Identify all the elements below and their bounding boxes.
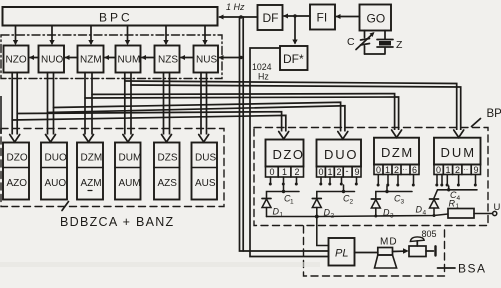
svg-text:R: R [449,199,456,209]
wire from summing bus down to PL [317,217,329,246]
contact wire C2 [317,190,355,206]
decoder/driver DUM/AUM [115,143,141,200]
svg-text:MD: MD [380,237,398,248]
svg-text:1: 1 [446,165,451,175]
scan artifact left edge [0,96,2,134]
carry wire NZM to NUO [65,55,78,60]
wire DF 1Hz output to BPC [219,15,258,20]
hollow arrow into DUS/AUS [199,135,209,143]
hollow arrow into DZS/AZS [162,135,172,143]
leader slash for BDBZCA label [62,202,69,211]
svg-text:DF*: DF* [283,52,304,66]
segment contacts under DUO [319,177,358,192]
wire pair NZM down to DZM/AZM [85,73,92,135]
svg-text:D: D [273,207,280,217]
wire 1Hz vertical feed to PL [240,17,329,251]
svg-text:DUM: DUM [119,153,142,164]
wire BPC to NZM [88,26,93,46]
svg-text:1: 1 [385,165,390,175]
hollow arrow into display DUM [454,130,464,138]
counter NZS [155,46,180,73]
dash-dot border of counter group BOZC [1,35,222,79]
svg-text:805: 805 [422,229,437,239]
wire BPC to NZO [13,26,18,46]
svg-text:C: C [347,36,355,48]
svg-text:0: 0 [319,167,324,177]
svg-text:4: 4 [457,195,461,202]
wire FI to DF [283,14,310,19]
counter NZO [4,46,29,73]
oscillator block FI [310,5,335,30]
svg-text:AUS: AUS [195,178,216,189]
svg-text:··: ·· [464,167,469,174]
svg-text:··: ·· [403,167,408,174]
svg-text:DZO: DZO [273,147,305,162]
wire pair NUO down to DUO/AUO [48,73,54,135]
wire 1Hz second vertical [242,17,244,251]
svg-text:DUO: DUO [324,147,358,162]
dashed border BP display unit [254,128,488,226]
segment contacts under DZO [269,177,298,192]
svg-text:BSA: BSA [458,262,487,276]
hollow arrow into DUO/AUO [46,135,56,143]
carry wire NUM to NZM [104,55,116,60]
wire BPC to NUM [125,26,130,46]
svg-text:DZO: DZO [7,153,28,164]
scanner smudge band [0,262,320,267]
decoder/driver DZS/AZS [154,143,180,200]
svg-text:0: 0 [436,165,441,175]
block BPC [3,7,218,26]
diode D3 [371,199,394,220]
dashed border BSA sound unit [304,226,445,276]
svg-text:NZO: NZO [6,55,27,66]
svg-text:DZS: DZS [158,153,178,164]
svg-text:9: 9 [355,167,360,177]
svg-text:DUM: DUM [441,145,477,160]
counter NUM [116,46,141,73]
carry wire NZS to NUM [141,55,155,60]
wire pair NZS down to DZS/AZS [164,73,170,135]
wire pair NUS down to DUS/AUS [201,73,207,135]
svg-text:DZM: DZM [381,145,414,160]
svg-text:3: 3 [401,199,405,206]
svg-text:AUO: AUO [45,178,67,189]
diode D2 [312,199,334,220]
svg-text:NUM: NUM [118,55,141,66]
hollow arrow into display DUO [338,132,348,140]
svg-text:1: 1 [328,167,333,177]
svg-text:2: 2 [455,165,460,175]
diode D4 [416,199,439,217]
programmer block PL [329,238,355,266]
bus pair NZO to display DZO [12,112,286,132]
svg-text:DF: DF [263,11,279,25]
svg-text:1024: 1024 [252,62,272,72]
wire GO to FI [336,14,360,19]
counter NUS [194,46,219,73]
decoder/driver DUO/AUO [41,143,67,200]
svg-text:NZS: NZS [158,55,178,66]
bell 805 [393,229,437,257]
svg-text:BDBZCA + BANZ: BDBZCA + BANZ [60,215,175,229]
output terminal U [474,202,501,216]
svg-text:NUO: NUO [41,55,63,66]
decoder/driver DZO/AZO [3,143,29,200]
dashed border BDBZCA+BANZ group [1,129,224,207]
svg-text:NZM: NZM [80,55,102,66]
carry wire NUS to NZS [180,55,194,60]
carry wire NUO to NZO [29,55,39,60]
display DZM [374,138,419,175]
loudspeaker MD [355,237,398,269]
wire pair NUM down to DUM/AUM [125,73,131,135]
hollow arrow into DZO/AZO [10,135,20,143]
wire BPC to NUS [202,26,207,46]
display DUM [434,138,481,175]
oscillator block DF (divider) [258,5,283,30]
display DZO [266,140,305,178]
wire pair NZO down to DZO/AZO [12,73,17,135]
svg-text:Hz: Hz [258,72,269,82]
summing wire to R1 [267,214,449,218]
svg-text:1: 1 [282,167,287,177]
svg-text:AZM: AZM [81,178,102,189]
contact wire C1 [267,190,300,206]
diode D1 [262,199,284,219]
svg-text:D: D [416,205,423,215]
counter NUO [39,46,65,73]
svg-text:PL: PL [335,248,348,260]
decoder/driver DUS/AUS [192,143,218,200]
svg-text:NUS: NUS [196,55,217,66]
svg-text:DUO: DUO [45,153,67,164]
label BSA with leader [438,262,487,276]
svg-text:GO: GO [367,12,386,26]
hollow arrow into DZM/AZM [84,135,94,143]
svg-text:1: 1 [456,203,460,210]
bus pair NUO to display DUO [48,102,345,131]
svg-text:9: 9 [474,165,479,175]
svg-text:AZO: AZO [7,178,28,189]
svg-text:2: 2 [350,199,354,206]
segment contacts under DUM [435,175,477,190]
svg-text:0: 0 [270,167,275,177]
svg-text:2: 2 [394,165,399,175]
svg-text:2: 2 [295,167,300,177]
counter NZM [78,46,104,73]
hollow arrow into display DZM [392,130,402,138]
svg-text:AZS: AZS [158,178,178,189]
svg-text:DZM: DZM [81,153,103,164]
bus pair NZM to display DZM [85,94,399,131]
svg-text:2: 2 [337,167,342,177]
svg-text:1: 1 [280,212,284,219]
resistor R1 [448,199,474,219]
divider block DF* [280,46,308,70]
svg-text:BP: BP [487,108,501,120]
contact wire C4 [434,188,477,202]
leader slash for BP label [472,119,481,127]
svg-text:DUS: DUS [195,153,216,164]
wire BPC to NZS [163,26,168,46]
hollow arrow into display DZO [279,132,289,140]
bus pair NUM to display DUM [125,81,461,131]
decoder/driver DZM/AZM [77,143,103,200]
crystal Z [365,31,404,55]
segment contacts under DZM [377,175,415,192]
svg-text:6: 6 [412,165,417,175]
wire 1Hz clock into NUS [219,55,243,60]
contact wire C3 [376,190,412,206]
svg-text:-: - [346,166,349,176]
svg-text:U: U [494,202,501,213]
svg-text:1 Hz: 1 Hz [226,2,245,12]
svg-text:Z: Z [396,39,403,51]
label 1024 Hz [252,62,272,82]
wire 1024Hz from DF* to PL [250,48,329,257]
wire junction down to DF* [292,16,297,45]
wire BPC to NUO [49,26,54,46]
svg-text:1: 1 [290,199,294,206]
oscillator block GO [360,5,392,31]
display DUO [317,140,362,178]
svg-text:FI: FI [317,11,328,25]
svg-text:0: 0 [376,165,381,175]
capacitor C (variable) of oscillator [347,31,375,55]
hollow arrow into DUM/AUM [123,135,133,143]
svg-text:AUM: AUM [119,178,141,189]
svg-text:BPC: BPC [99,11,133,25]
